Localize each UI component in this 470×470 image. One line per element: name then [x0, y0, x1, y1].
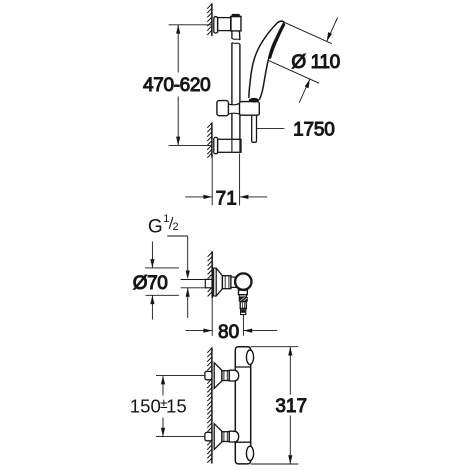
hand shower face inner rim line [268, 23, 284, 61]
dimension 470-620 arrows [176, 25, 180, 34]
dimension O110 arrows and leaders [327, 18, 338, 42]
bottom union D-connector [229, 431, 238, 442]
rail tube (with adjustable-length break) [232, 31, 240, 139]
top rail block [231, 16, 241, 31]
slider holder waist [228, 103, 240, 114]
dimension 1750 leader [257, 127, 284, 129]
dimension O70 stubs [145, 268, 179, 295]
svg-text:G: G [148, 217, 163, 238]
rail silhouette inside bottom arm [232, 139, 240, 152]
bottom wall bracket arm [218, 139, 241, 152]
bottom union nut [222, 432, 229, 442]
dimension 470-620 line [177, 25, 179, 146]
svg-text:150: 150 [130, 395, 161, 416]
svg-text:1: 1 [163, 213, 169, 225]
dimension text 150+-15 [130, 395, 187, 416]
bottom union escutcheon cone [214, 424, 222, 450]
wall (lower segment of rail bar) [207, 122, 212, 157]
outlet lower barrel [240, 302, 246, 309]
top union nut [222, 371, 229, 381]
thermostat body [235, 347, 250, 464]
dimension 470-620 extension lines [169, 25, 212, 146]
rail top cap (dark) [231, 14, 240, 17]
svg-text:1750: 1750 [293, 119, 334, 140]
outlet hose nipple (dark band) [241, 309, 246, 315]
handle cone end (dark) [249, 98, 259, 103]
G 1/2 thread arrows [186, 271, 190, 280]
bottom union bolt in wall [205, 432, 212, 440]
slider holder left knob [217, 101, 229, 116]
dimension O110 extension lines [268, 22, 332, 83]
escutcheon cone [216, 268, 222, 296]
valve body (circle) [235, 273, 251, 289]
dimension O70 arrows [151, 242, 153, 320]
svg-text:Ø 110: Ø 110 [291, 52, 339, 73]
top union bolt in wall [205, 371, 212, 379]
top wall bracket flange [214, 17, 218, 33]
svg-text:470-620: 470-620 [143, 75, 210, 96]
top union escutcheon cone [214, 363, 222, 389]
hose start line / right extension of 80 [242, 315, 244, 336]
bottom wall bracket flange [214, 137, 218, 153]
dimension 80 arrows [186, 330, 213, 332]
wall (upper segment) [207, 3, 212, 36]
barrel to valve [231, 277, 238, 287]
union nut [222, 276, 231, 289]
hand shower face dark rim [270, 25, 284, 58]
dimension 150+-15 extension lines [156, 376, 205, 437]
escutcheon plate (side) [214, 268, 217, 296]
dimension 150+-15 arrows [161, 376, 165, 385]
top union D-connector [229, 370, 238, 381]
slider holder body [240, 102, 260, 116]
svg-text:80: 80 [218, 322, 239, 343]
wall (bottom) [207, 347, 212, 463]
G 1/2 thread tail in wall [205, 279, 212, 287]
outlet separator ring [239, 295, 246, 297]
svg-text:Ø70: Ø70 [133, 273, 168, 294]
G 1/2 thread extension ticks [181, 280, 206, 288]
hand shower head outline [249, 21, 284, 98]
outlet neck [239, 290, 248, 295]
knurled hose nut (dark) [239, 297, 248, 302]
dimension 71 extension lines [212, 154, 239, 206]
G 1/2 leader [167, 236, 187, 275]
label G 1/2 [148, 213, 179, 238]
svg-text:2: 2 [173, 221, 179, 233]
svg-text:71: 71 [216, 189, 237, 210]
dimension 150+-15 line [162, 376, 164, 437]
top handle ellipse [246, 350, 253, 364]
fraction slash of G 1/2 [169, 217, 173, 229]
bottom handle ellipse [246, 446, 253, 460]
hand shower handle right edge [259, 60, 268, 100]
wall (middle) [208, 251, 213, 335]
svg-text:317: 317 [275, 396, 307, 417]
dimension 71 arrows [185, 196, 212, 198]
dimension 317 line [289, 347, 291, 464]
body cap separators [235, 367, 250, 442]
dimension 317 arrows [288, 347, 292, 356]
svg-text:15: 15 [166, 395, 187, 416]
top wall bracket arm [218, 18, 231, 31]
shower hose [252, 115, 257, 143]
dimension 317 extension lines [251, 347, 299, 464]
